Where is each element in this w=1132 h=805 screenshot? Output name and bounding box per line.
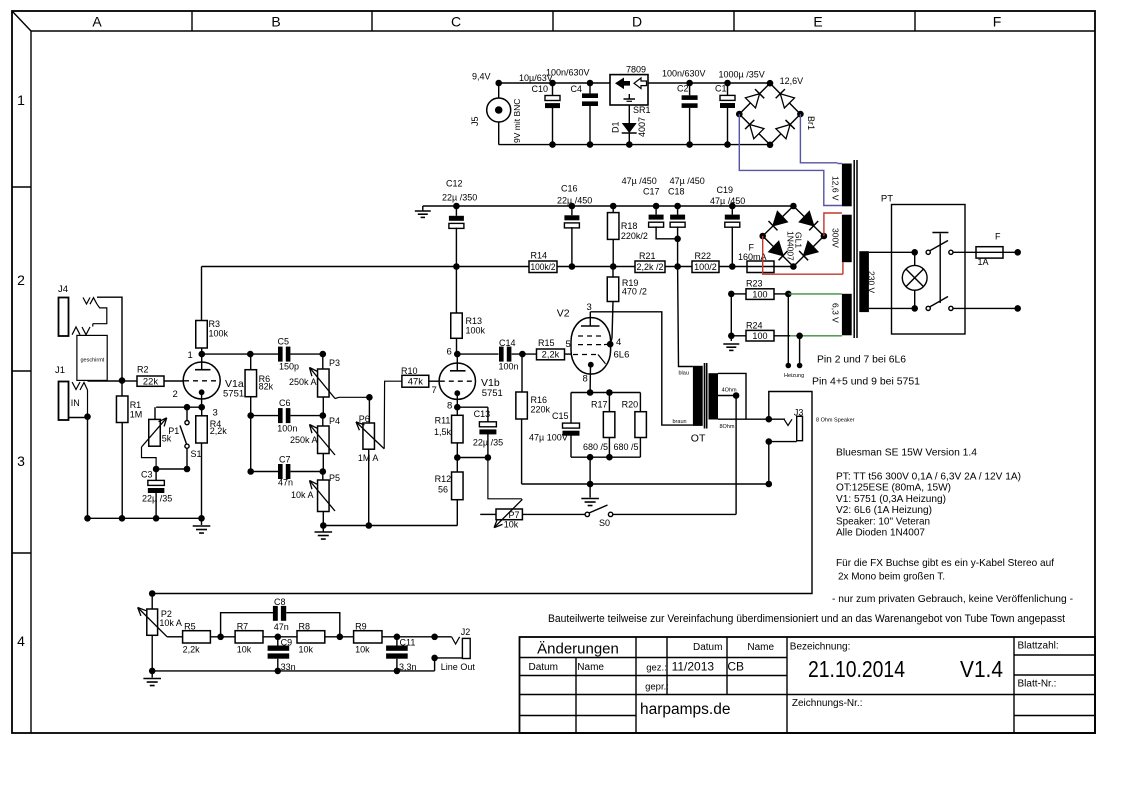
svg-text:J5: J5 xyxy=(470,116,480,126)
resistor R12 xyxy=(452,472,464,500)
wire Br1 to 12.6V winding blue xyxy=(800,114,837,163)
wire P1 wiper to C3 xyxy=(142,447,157,469)
svg-text:P5: P5 xyxy=(329,473,340,483)
svg-text:Blattzahl:: Blattzahl: xyxy=(1018,641,1059,652)
svg-text:1: 1 xyxy=(17,92,25,108)
svg-text:3,3n: 3,3n xyxy=(399,662,417,672)
svg-text:220k/2: 220k/2 xyxy=(621,231,648,241)
svg-text:150p: 150p xyxy=(279,362,299,372)
svg-text:10k: 10k xyxy=(299,644,314,654)
svg-text:Br1: Br1 xyxy=(806,116,816,130)
svg-text:Datum: Datum xyxy=(529,662,558,673)
svg-text:R14: R14 xyxy=(531,251,548,261)
potentiometer P2 xyxy=(151,594,153,610)
svg-text:S1: S1 xyxy=(191,449,202,459)
svg-text:82k: 82k xyxy=(259,382,274,392)
svg-text:R11: R11 xyxy=(435,415,451,425)
svg-text:6: 6 xyxy=(447,347,452,358)
node P3 top xyxy=(320,351,327,358)
node C7 left xyxy=(247,468,254,475)
ground symbol top rail xyxy=(422,206,424,211)
contact J4 return path xyxy=(93,304,107,324)
svg-text:R12: R12 xyxy=(435,474,452,484)
svg-text:100n/630V: 100n/630V xyxy=(662,69,706,79)
transformer PT windings xyxy=(842,164,852,207)
svg-text:1N4007: 1N4007 xyxy=(786,231,796,261)
wire GL1 red to 300V winding xyxy=(763,236,843,274)
svg-text:CB: CB xyxy=(727,660,744,674)
ground top rail xyxy=(423,205,794,207)
svg-text:C2: C2 xyxy=(677,84,689,94)
svg-text:Alle Dioden 1N4007: Alle Dioden 1N4007 xyxy=(836,527,925,539)
svg-text:33n: 33n xyxy=(281,662,296,672)
mains box xyxy=(892,205,966,335)
svg-text:- nur zum privaten Gebrauch, k: - nur zum privaten Gebrauch, keine Veröf… xyxy=(832,593,1073,605)
svg-text:Line Out: Line Out xyxy=(441,662,476,672)
bridge rectifier GL1 xyxy=(763,206,824,267)
svg-text:22k: 22k xyxy=(143,376,159,386)
svg-text:C1: C1 xyxy=(715,84,727,94)
svg-text:OT:125ESE (80mA, 15W): OT:125ESE (80mA, 15W) xyxy=(836,482,951,494)
svg-text:300V: 300V xyxy=(831,228,841,248)
resistor R1 xyxy=(119,377,126,384)
svg-text:V2: 6L6 (1A Heizung): V2: 6L6 (1A Heizung) xyxy=(836,504,932,516)
svg-text:B: B xyxy=(271,14,280,30)
svg-text:12,6 V: 12,6 V xyxy=(831,176,841,201)
svg-text:9V mit BNC: 9V mit BNC xyxy=(512,99,522,143)
svg-text:47n: 47n xyxy=(274,622,289,632)
svg-text:22µ /35: 22µ /35 xyxy=(473,438,503,448)
node P4 top xyxy=(320,412,327,419)
potentiometer P7 xyxy=(480,513,496,515)
wire R11 C13 junction xyxy=(457,457,488,459)
svg-text:R18: R18 xyxy=(621,221,638,231)
svg-text:1A: 1A xyxy=(978,257,989,267)
svg-text:47µ /450: 47µ /450 xyxy=(622,176,657,186)
svg-text:22µ /350: 22µ /350 xyxy=(442,193,477,203)
svg-text:C13: C13 xyxy=(474,409,491,419)
svg-text:8: 8 xyxy=(583,374,588,385)
svg-text:C5: C5 xyxy=(278,337,290,347)
ground symbol V1a xyxy=(201,518,203,525)
svg-text:C3: C3 xyxy=(141,470,153,480)
node C6 left xyxy=(247,412,254,419)
node V1b pin8 xyxy=(454,404,461,411)
node R8 R9 xyxy=(337,634,344,641)
svg-text:Bluesman SE 15W Version 1.4: Bluesman SE 15W Version 1.4 xyxy=(836,447,977,459)
wire 6.3V green bottom xyxy=(774,335,790,337)
svg-text:C4: C4 xyxy=(571,84,583,94)
svg-text:R22: R22 xyxy=(695,251,712,261)
wire OT 8 ohm out xyxy=(718,418,785,420)
wire OT secondary top xyxy=(718,373,746,419)
svg-text:2,2k: 2,2k xyxy=(210,426,228,436)
svg-text:R1: R1 xyxy=(130,400,142,410)
svg-text:100: 100 xyxy=(752,289,767,299)
ground symbol output xyxy=(589,484,591,498)
svg-text:100n: 100n xyxy=(277,424,297,434)
svg-text:5: 5 xyxy=(566,339,571,350)
svg-text:PT: TT t56 300V 0,1A / 6,3V 2A: PT: TT t56 300V 0,1A / 6,3V 2A / 12V 1A) xyxy=(836,471,1021,483)
svg-text:6,3 V: 6,3 V xyxy=(831,303,841,323)
wire pin8 to C13 xyxy=(457,406,488,408)
svg-text:C17: C17 xyxy=(643,187,660,197)
node V1b pin6 xyxy=(454,351,461,358)
transformer OT primary xyxy=(693,366,703,426)
svg-text:56: 56 xyxy=(438,484,448,494)
potentiometer P1 xyxy=(154,407,156,419)
svg-text:Name: Name xyxy=(577,662,604,673)
wire P3 wiper to P6 xyxy=(335,397,369,398)
svg-text:12,6V: 12,6V xyxy=(780,76,804,86)
node R9 C11 xyxy=(394,634,401,641)
wire NFB from speaker to tone stack xyxy=(152,392,812,594)
wire 6.3V green top xyxy=(774,293,788,295)
wire B+ to OT blau xyxy=(678,267,693,367)
wire tone ground rail xyxy=(152,670,434,672)
wire PT primary leads xyxy=(869,251,915,253)
svg-text:C: C xyxy=(451,14,461,30)
svg-text:R10: R10 xyxy=(401,366,418,376)
mains switch S xyxy=(926,250,930,254)
svg-text:Änderungen: Änderungen xyxy=(537,641,619,658)
svg-text:gepr.:: gepr.: xyxy=(645,682,669,693)
wire V1b pin6 to C14 xyxy=(457,353,498,355)
svg-text:2,2k /2: 2,2k /2 xyxy=(637,262,664,272)
svg-text:Heizung: Heizung xyxy=(784,373,804,379)
resistor R18 xyxy=(610,203,617,210)
wire J4 tip to node xyxy=(97,297,122,380)
svg-text:100: 100 xyxy=(752,331,767,341)
wire V2 anode to OT xyxy=(590,312,693,425)
svg-text:10k: 10k xyxy=(355,644,370,654)
svg-text:gez.:: gez.: xyxy=(646,663,667,674)
svg-text:F: F xyxy=(993,14,1002,30)
transformer PT primary 230V xyxy=(859,251,869,312)
svg-text:A: A xyxy=(92,14,102,30)
diode D1 xyxy=(628,105,630,123)
svg-text:R21: R21 xyxy=(639,251,656,261)
svg-text:220k: 220k xyxy=(531,405,551,415)
svg-text:Bezeichnung:: Bezeichnung: xyxy=(790,642,851,653)
node P2 top xyxy=(149,590,156,597)
svg-text:C6: C6 xyxy=(279,398,291,408)
svg-text:J4: J4 xyxy=(58,284,68,295)
svg-text:6L6: 6L6 xyxy=(614,350,630,361)
svg-text:blau: blau xyxy=(679,371,689,377)
transformer PT core xyxy=(853,160,855,338)
svg-text:9,4V: 9,4V xyxy=(472,72,491,82)
potentiometer P6 xyxy=(366,394,373,401)
svg-text:braun: braun xyxy=(673,419,687,425)
svg-text:22µ /450: 22µ /450 xyxy=(557,196,592,206)
svg-text:D: D xyxy=(632,14,642,30)
potentiometer P4 xyxy=(322,416,324,426)
svg-text:C18: C18 xyxy=(668,187,685,197)
svg-text:C10: C10 xyxy=(532,84,549,94)
switch S1 xyxy=(184,404,191,411)
svg-text:P7: P7 xyxy=(509,510,520,520)
wire C8 branch xyxy=(221,613,273,637)
svg-text:7809: 7809 xyxy=(626,65,646,75)
resistor R4 xyxy=(196,416,208,443)
svg-text:680 /5: 680 /5 xyxy=(583,442,608,452)
svg-text:250k A: 250k A xyxy=(289,377,317,387)
node R5 R7 xyxy=(217,634,224,641)
svg-text:4007: 4007 xyxy=(637,117,647,137)
switch S0 xyxy=(585,512,589,516)
svg-text:2x Mono beim großen T.: 2x Mono beim großen T. xyxy=(838,571,945,583)
connector J5 xyxy=(487,98,511,122)
svg-text:C19: C19 xyxy=(717,185,734,195)
svg-text:Pin 4+5 und 9 bei 5751: Pin 4+5 und 9 bei 5751 xyxy=(812,376,920,388)
svg-text:100k: 100k xyxy=(466,326,486,336)
svg-text:E: E xyxy=(813,14,822,30)
svg-text:J2: J2 xyxy=(461,627,471,637)
connector J2 xyxy=(431,634,438,641)
wire C13 junction to P7 wiper xyxy=(488,458,522,499)
svg-text:100n/630V: 100n/630V xyxy=(546,68,590,78)
svg-text:OT: OT xyxy=(691,433,706,445)
svg-text:2,2k: 2,2k xyxy=(542,350,560,360)
svg-text:2: 2 xyxy=(17,272,25,288)
svg-text:10k A: 10k A xyxy=(291,490,314,500)
svg-text:11/2013: 11/2013 xyxy=(672,660,715,674)
svg-text:R20: R20 xyxy=(622,400,639,410)
svg-text:10k: 10k xyxy=(237,644,252,654)
svg-text:2: 2 xyxy=(173,389,178,400)
svg-text:5751: 5751 xyxy=(482,388,503,399)
transformer OT core xyxy=(704,363,706,429)
svg-text:R13: R13 xyxy=(466,316,483,326)
node 9,4V xyxy=(495,80,502,87)
svg-text:P4: P4 xyxy=(329,416,340,426)
svg-text:5751: 5751 xyxy=(223,389,244,400)
svg-text:100/2: 100/2 xyxy=(694,262,717,272)
svg-text:250k A: 250k A xyxy=(290,435,318,445)
svg-text:8 Ohm Speaker: 8 Ohm Speaker xyxy=(816,418,855,424)
svg-text:R24: R24 xyxy=(746,321,763,331)
wire mains neutral xyxy=(953,307,1018,309)
wire B+ rail xyxy=(202,266,748,268)
svg-text:Bauteilwerte teilweise zur Ver: Bauteilwerte teilweise zur Vereinfachung… xyxy=(548,613,1065,625)
cathode network box xyxy=(571,392,640,394)
resistor R16 xyxy=(521,354,523,392)
bridge rectifier Br1 xyxy=(739,83,800,145)
svg-text:680 /5: 680 /5 xyxy=(614,442,639,452)
node V1a cathode xyxy=(198,404,205,411)
svg-text:230 V: 230 V xyxy=(867,271,877,294)
svg-text:4: 4 xyxy=(17,633,25,649)
svg-text:Pin 2 und 7 bei 6L6: Pin 2 und 7 bei 6L6 xyxy=(817,354,906,366)
svg-text:3: 3 xyxy=(213,408,218,419)
resistor R3 xyxy=(201,267,203,321)
wire mains live xyxy=(953,251,976,253)
svg-text:IN: IN xyxy=(71,398,80,408)
node P5 top xyxy=(320,468,327,475)
svg-text:C12: C12 xyxy=(446,179,463,189)
svg-text:8Ohm: 8Ohm xyxy=(720,424,735,430)
svg-text:P6: P6 xyxy=(359,414,370,424)
svg-text:10k: 10k xyxy=(504,520,519,530)
svg-text:100k: 100k xyxy=(209,329,229,339)
heater feed wires Heizung xyxy=(787,294,789,364)
svg-text:21.10.2014: 21.10.2014 xyxy=(808,656,905,682)
svg-text:47µ 100V: 47µ 100V xyxy=(529,432,568,442)
wire OT 4 ohm tap xyxy=(718,395,736,397)
wire P6 wiper to R10 xyxy=(384,381,402,449)
svg-text:J1: J1 xyxy=(55,365,65,376)
svg-text:C15: C15 xyxy=(552,411,569,421)
svg-text:Blatt-Nr.:: Blatt-Nr.: xyxy=(1018,679,1057,690)
contact J4 tip xyxy=(83,298,90,305)
svg-text:Name: Name xyxy=(747,642,774,653)
svg-text:PT: PT xyxy=(881,194,893,205)
svg-text:Datum: Datum xyxy=(693,642,722,653)
svg-text:47µ /450: 47µ /450 xyxy=(670,176,705,186)
svg-text:47µ /450: 47µ /450 xyxy=(710,196,745,206)
resistor R11 xyxy=(452,415,464,443)
svg-text:D1: D1 xyxy=(611,121,621,133)
svg-text:2,2k: 2,2k xyxy=(183,644,201,654)
potentiometer P3 xyxy=(322,354,324,369)
svg-text:SR1: SR1 xyxy=(633,105,651,115)
svg-text:4: 4 xyxy=(616,337,621,348)
wire S0 to 4 ohm tap xyxy=(735,396,737,515)
wire R23 R24 left to ground xyxy=(731,293,746,295)
svg-text:V1.4: V1.4 xyxy=(960,656,1003,682)
wire 9V top rail xyxy=(499,82,770,84)
shield geschirmt xyxy=(92,324,94,327)
resistor R19 xyxy=(612,267,614,278)
transformer OT secondary xyxy=(709,373,719,419)
svg-text:S0: S0 xyxy=(599,518,610,528)
svg-text:470 /2: 470 /2 xyxy=(622,287,647,297)
svg-text:8: 8 xyxy=(447,401,452,412)
svg-text:R16: R16 xyxy=(531,395,548,405)
svg-text:C16: C16 xyxy=(561,184,578,194)
node C14 R16 xyxy=(519,351,526,358)
ground symbol pots xyxy=(322,526,324,532)
svg-text:V2: V2 xyxy=(557,308,570,320)
svg-text:C7: C7 xyxy=(279,455,291,465)
resistor R6 xyxy=(250,354,252,370)
svg-text:1000µ /35V: 1000µ /35V xyxy=(719,70,765,80)
tube V1a xyxy=(183,362,220,399)
wire cathode to ground rail xyxy=(589,457,591,484)
contact J4 ring xyxy=(72,327,80,335)
resistor R13 xyxy=(451,313,463,338)
svg-text:C14: C14 xyxy=(499,338,516,348)
svg-text:100n: 100n xyxy=(499,362,519,372)
node V1a pin1 xyxy=(199,351,206,358)
ground symbol tone xyxy=(151,671,153,678)
svg-text:F: F xyxy=(995,232,1001,242)
node R7 C9 xyxy=(275,634,282,641)
svg-text:3: 3 xyxy=(17,453,25,469)
svg-text:R17: R17 xyxy=(591,400,608,410)
svg-text:harpamps.de: harpamps.de xyxy=(640,701,730,718)
svg-text:1,5k: 1,5k xyxy=(434,427,452,437)
wire 9V bottom rail xyxy=(499,144,770,146)
svg-text:C8: C8 xyxy=(274,597,286,607)
capacitor C15 xyxy=(570,393,572,424)
svg-text:R3: R3 xyxy=(209,319,221,329)
svg-text:R15: R15 xyxy=(538,338,555,348)
potentiometer P5 xyxy=(322,472,324,481)
wire left ground rail xyxy=(88,517,202,519)
svg-text:100k/2: 100k/2 xyxy=(531,262,556,272)
capacitor C12 feed to R13 xyxy=(453,263,460,270)
svg-text:V1: 5751 (0,3A Heizung): V1: 5751 (0,3A Heizung) xyxy=(836,493,946,505)
svg-text:22µ /35: 22µ /35 xyxy=(142,494,172,504)
svg-text:R2: R2 xyxy=(137,365,149,375)
wire J3 sleeve to ground xyxy=(769,441,797,443)
svg-text:P3: P3 xyxy=(329,358,340,368)
svg-text:Für die FX Buchse gibt es ein: Für die FX Buchse gibt es ein y-Kabel St… xyxy=(836,557,1054,569)
wire output ground rail xyxy=(522,483,769,485)
wire J1 sleeve xyxy=(87,390,89,417)
svg-text:1M: 1M xyxy=(130,410,143,420)
svg-text:4Ohm: 4Ohm xyxy=(722,388,737,394)
svg-text:10k A: 10k A xyxy=(159,618,182,628)
wire J1 tip to R2 node xyxy=(88,380,123,382)
svg-text:5k: 5k xyxy=(162,433,172,443)
svg-text:R23: R23 xyxy=(746,279,763,289)
title block xyxy=(520,637,1096,733)
svg-text:Speaker: 10'' Veteran: Speaker: 10'' Veteran xyxy=(836,515,930,527)
svg-text:1: 1 xyxy=(188,350,193,361)
lamp xyxy=(902,265,927,290)
svg-text:47n: 47n xyxy=(278,478,293,488)
wire pots ground rail xyxy=(323,525,457,527)
tube V1b xyxy=(439,363,475,399)
svg-text:7: 7 xyxy=(432,385,437,396)
svg-text:geschirmt: geschirmt xyxy=(81,358,105,364)
node R6 top xyxy=(247,351,254,358)
svg-text:Zeichnungs-Nr.:: Zeichnungs-Nr.: xyxy=(792,698,863,709)
svg-text:47k: 47k xyxy=(408,376,424,386)
wire P2 wiper to R5 xyxy=(167,636,183,638)
contact J1 tip xyxy=(72,382,80,390)
wire J2 sleeve xyxy=(435,658,463,671)
